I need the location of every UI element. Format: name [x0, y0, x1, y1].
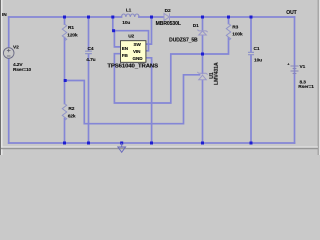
svg-text:120k: 120k [67, 33, 78, 39]
junction D1 top rail [201, 16, 204, 19]
svg-text:R1: R1 [68, 25, 74, 31]
capacitor C4 [85, 51, 92, 53]
shunt regulator U1 LMV431A [197, 72, 207, 80]
window border bottom [1, 147, 318, 148]
junction R3 top rail [227, 16, 230, 19]
svg-text:4.7u: 4.7u [86, 57, 95, 63]
svg-text:62k: 62k [68, 113, 76, 119]
wire GND pin descent [146, 58, 152, 143]
svg-text:Rser=1: Rser=1 [298, 84, 314, 90]
inductor L1 [122, 14, 140, 17]
IC U2 TPS61040 [121, 41, 146, 63]
wire R1 R2 divider column [64, 17, 66, 24]
wire R3 branch [228, 17, 230, 24]
junction ground flag bottom rail [120, 142, 123, 145]
junction EN VIN branch [112, 29, 115, 32]
window border right [318, 0, 320, 155]
wire top rail SW node segment [139, 16, 164, 18]
wire FB pin to cathode node [114, 54, 202, 103]
svg-text:D1: D1 [193, 23, 199, 29]
svg-text:MBR0530L: MBR0530L [156, 21, 181, 27]
junction U1 anode bottom rail [201, 142, 204, 145]
junction R2 bottom rail [63, 142, 66, 145]
svg-text:10u: 10u [254, 57, 262, 63]
wire left rail [8, 17, 10, 143]
wire right rail [294, 17, 296, 143]
junction C4 bottom rail [87, 142, 90, 145]
svg-text:FB: FB [122, 53, 129, 58]
wire EN VIN riser [113, 17, 149, 51]
svg-text:D2: D2 [165, 8, 171, 14]
svg-text:L1: L1 [126, 8, 132, 14]
svg-text:IN: IN [2, 12, 7, 18]
svg-text:R2: R2 [68, 106, 74, 112]
svg-text:TPS61040_TRANS: TPS61040_TRANS [107, 63, 158, 69]
svg-text:C1: C1 [254, 46, 260, 52]
svg-text:V2: V2 [13, 45, 19, 51]
svg-text:U2: U2 [128, 34, 134, 40]
junction C1 bottom rail [250, 142, 253, 145]
capacitor C1 [248, 52, 254, 54]
wire SW pin riser [146, 17, 152, 44]
resistor R1 [62, 24, 66, 41]
zener diode D1 [197, 30, 207, 35]
junction R1 R2 feedback divider [64, 79, 67, 82]
wire top rail OUT segment [170, 16, 295, 18]
junction D1 R3 U1 cathode node [201, 53, 204, 56]
window border left [0, 0, 1, 155]
voltage source V2 [3, 48, 14, 59]
junction C4 top rail [87, 16, 90, 19]
svg-text:10u: 10u [122, 20, 130, 26]
junction VIN riser top rail [111, 16, 114, 19]
svg-text:DUDZS7_5B: DUDZS7_5B [169, 37, 198, 43]
diode D2 MBR0530L [164, 13, 170, 20]
battery V1 [291, 66, 299, 74]
svg-text:C4: C4 [88, 46, 94, 52]
junction SW node top rail [150, 16, 153, 19]
svg-text:SW: SW [134, 42, 142, 47]
ground [118, 143, 126, 152]
svg-text:VIN: VIN [133, 49, 141, 54]
wire EN pin [114, 31, 120, 47]
svg-text:Rser=10: Rser=10 [13, 67, 32, 73]
svg-text:100k: 100k [232, 32, 243, 38]
wire C4 column [88, 17, 90, 51]
svg-text:LMV431A: LMV431A [214, 62, 220, 85]
resistor R2 [62, 104, 66, 121]
wire bottom rail [9, 142, 295, 144]
svg-text:V1: V1 [300, 64, 306, 70]
wire top rail IN segment [9, 16, 122, 18]
junction GND pin bottom rail [150, 142, 153, 145]
junction C1 top rail [250, 16, 253, 19]
svg-text:OUT: OUT [286, 10, 296, 16]
wire D1 U1 column [202, 17, 204, 30]
wire C1 column [250, 17, 252, 52]
resistor R3 [226, 24, 230, 41]
svg-text:GND: GND [133, 56, 144, 61]
wire divider midpoint to U1 ref [65, 75, 200, 124]
junction R1 top rail [63, 16, 66, 19]
svg-text:R3: R3 [232, 25, 238, 31]
svg-text:EN: EN [122, 46, 129, 51]
